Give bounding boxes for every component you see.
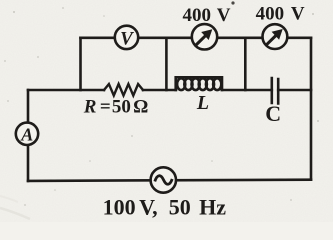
ammeter A1: [16, 123, 38, 145]
wire right outer vertical: [310, 38, 313, 180]
svg-text:L: L: [196, 92, 209, 114]
wire left outer vertical: [27, 90, 30, 181]
svg-text:C: C: [265, 101, 281, 126]
wire between inductor and capacitor: [222, 89, 272, 92]
inductor L1 coil: [176, 77, 222, 90]
wire top bus: [81, 36, 312, 39]
capacitor C1 plates: [272, 78, 278, 104]
voltmeter U1 (V) across R: [115, 26, 138, 50]
svg-text:V: V: [120, 28, 134, 49]
svg-text:400V: 400V: [183, 5, 231, 26]
wire left riser of V loop: [79, 38, 82, 90]
svg-text:A: A: [20, 124, 33, 144]
wire main line left of resistor: [28, 89, 104, 92]
AC source V1: [151, 167, 176, 192]
svg-text:400V: 400V: [256, 3, 305, 24]
wire bottom: [28, 180, 311, 181]
svg-text:R=50Ω: R=50Ω: [83, 97, 149, 118]
voltmeter U3 (400 V across C): [263, 24, 288, 49]
wire between resistor and inductor: [143, 89, 176, 92]
voltmeter U2 (400 V across L): [192, 24, 217, 49]
resistor R1 zigzag: [104, 84, 143, 96]
wire capacitor to right vertical: [278, 89, 311, 92]
wire junction riser between L and C: [244, 38, 247, 90]
wire junction riser between R and L: [165, 38, 168, 90]
